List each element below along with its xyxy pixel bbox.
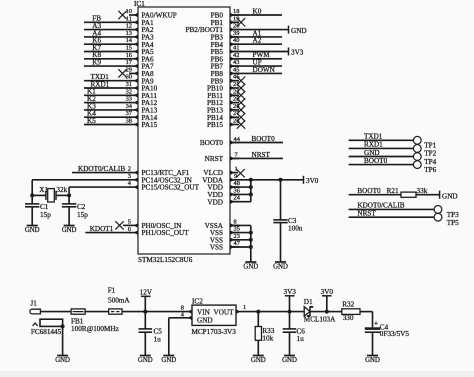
svg-text:3V3: 3V3	[284, 288, 297, 296]
svg-text:R21: R21	[387, 187, 399, 195]
power symbol 3V0 (VDDA)	[304, 176, 319, 185]
svg-text:PB15: PB15	[207, 121, 223, 129]
junction VDDA / C3 tap	[279, 178, 283, 182]
wire 3V0 to R32	[327, 311, 342, 313]
wire net K6 to pin 14	[84, 37, 130, 45]
pin 24 VDD	[230, 195, 251, 204]
svg-text:R32: R32	[342, 301, 354, 309]
svg-text:VIN: VIN	[197, 309, 211, 317]
pin 4 PC15/OSC32_OUT	[128, 180, 138, 189]
svg-text:FC681445: FC681445	[31, 328, 62, 336]
svg-text:3V0: 3V0	[306, 177, 319, 185]
pin 27 PB14 (right)	[230, 110, 240, 119]
wire net A3 to pin 12	[84, 22, 130, 30]
svg-text:VSS: VSS	[210, 244, 223, 252]
wire net TXD1 to pin 30	[84, 73, 130, 81]
no-connect pin 25	[237, 98, 245, 106]
svg-text:GND: GND	[273, 264, 288, 271]
svg-text:15p: 15p	[40, 211, 51, 219]
pin 36 VDD	[230, 187, 251, 196]
svg-text:BOOT0: BOOT0	[364, 157, 388, 165]
svg-text:KDOT1: KDOT1	[90, 225, 114, 233]
pin 35 VSS	[230, 226, 251, 235]
connector J1 FC681445 barrel jack	[30, 300, 63, 337]
wire net RXD1 to test point TP2	[349, 141, 414, 149]
svg-text:TP4: TP4	[424, 158, 436, 166]
ground under C4	[365, 356, 380, 365]
svg-text:33: 33	[126, 96, 132, 103]
pin 20 PB2/BOOT1 (right)	[230, 23, 239, 32]
svg-text:+: +	[374, 319, 378, 327]
ground under VSS bus	[243, 262, 258, 271]
svg-text:TP2: TP2	[424, 150, 436, 158]
wire net BOOT0 to test point TP6	[349, 157, 414, 165]
wire net K7 to pin 15	[84, 44, 130, 52]
pin 8 IC2 VIN	[181, 304, 192, 314]
svg-text:48: 48	[234, 180, 240, 187]
wire net K5 to pin 38	[84, 117, 130, 125]
pin 16 PA6 (left)	[126, 52, 138, 61]
ground under C1	[25, 226, 40, 235]
svg-text:C6: C6	[297, 327, 306, 335]
capacitor C6 1u	[283, 312, 306, 356]
pin 43 PB7 (right)	[230, 59, 239, 68]
pin 26 PB13 (right)	[230, 103, 239, 112]
pin 17 PA7 (left)	[126, 59, 138, 68]
pin 6 PH1/OSC_OUT	[128, 226, 138, 235]
pin 34 PA13 (left)	[126, 103, 138, 112]
junction R33 tap	[256, 310, 260, 314]
ground under C2	[62, 226, 77, 235]
svg-text:30: 30	[126, 74, 132, 81]
svg-text:40: 40	[233, 37, 239, 44]
svg-text:500mA: 500mA	[108, 297, 130, 305]
pin 11 PA1 (left)	[126, 15, 138, 24]
pin 47 VSS	[230, 240, 251, 249]
svg-text:35: 35	[234, 226, 240, 233]
svg-text:STM32L152C8U6: STM32L152C8U6	[138, 256, 193, 264]
no-connect pin 28	[237, 120, 245, 128]
wire net A4 to pin 13	[84, 29, 130, 37]
svg-text:1: 1	[235, 165, 238, 172]
pin 15 PA5 (left)	[126, 45, 138, 54]
svg-text:TP5: TP5	[447, 219, 459, 227]
svg-text:PA15: PA15	[142, 121, 158, 129]
pin 30 PA9 (left)	[126, 74, 138, 83]
junction crystal left node	[30, 193, 34, 197]
svg-text:TP3: TP3	[447, 211, 459, 219]
wire net DOWN from pin 45	[230, 66, 282, 74]
ferrite bead FB1 100R@100MHz	[71, 309, 119, 333]
svg-text:41: 41	[233, 45, 239, 52]
wire F1 to IC2 VIN	[122, 311, 192, 313]
wire J1 to FB1	[40, 311, 71, 313]
svg-text:F1: F1	[108, 287, 116, 295]
wire net A2 from pin 40	[230, 37, 282, 45]
pin 42 PB6 (right)	[230, 52, 239, 61]
ground under J1	[55, 356, 70, 365]
wire R32 to C4	[360, 312, 373, 328]
svg-text:A2: A2	[253, 37, 262, 45]
ground under C3	[273, 262, 288, 271]
wire VDD bus vertical	[250, 180, 252, 202]
svg-text:39: 39	[233, 30, 239, 37]
svg-text:1u: 1u	[154, 335, 162, 343]
svg-text:VDD: VDD	[207, 198, 223, 206]
pin 4 IC2 GND wire to ground	[169, 311, 192, 355]
svg-text:J1: J1	[30, 300, 37, 308]
pin 28 PB15 (right)	[230, 118, 239, 127]
no-connect pin 46	[237, 77, 245, 85]
svg-text:26: 26	[233, 103, 239, 110]
svg-text:MCP1703-3V3: MCP1703-3V3	[192, 328, 237, 336]
svg-text:12: 12	[126, 23, 132, 30]
wire net KDOT0/CALIB to pin 2	[72, 165, 130, 173]
svg-text:17: 17	[126, 59, 133, 66]
wire net FB to pin 11	[84, 15, 130, 23]
svg-text:19: 19	[233, 15, 239, 22]
svg-text:GND: GND	[291, 27, 307, 35]
svg-text:330: 330	[343, 314, 354, 322]
svg-text:TP1: TP1	[424, 142, 436, 150]
svg-text:PC15/OSC32_OUT: PC15/OSC32_OUT	[142, 184, 200, 192]
junction C6 / 3V3 tap	[288, 310, 292, 314]
svg-text:KDOT0/CALIB: KDOT0/CALIB	[357, 202, 404, 210]
svg-text:GND: GND	[243, 264, 258, 271]
svg-text:GND: GND	[251, 357, 266, 364]
wire net K3 to pin 34	[84, 102, 130, 110]
svg-text:NRST: NRST	[357, 210, 376, 218]
svg-text:BOOT0: BOOT0	[252, 135, 276, 143]
pin 9 VDDA	[230, 173, 239, 182]
no-connect pin 10	[118, 11, 126, 19]
fuse F1 500mA	[108, 287, 131, 315]
svg-text:D1: D1	[304, 298, 313, 306]
no-connect pin 27	[237, 113, 245, 121]
svg-text:15p: 15p	[77, 211, 88, 219]
svg-text:32k: 32k	[56, 186, 67, 194]
wire VSS bus vertical to ground	[250, 225, 252, 262]
pin 44 BOOT0	[230, 136, 241, 145]
svg-text:13: 13	[126, 30, 132, 37]
svg-text:PH1/OSC_OUT: PH1/OSC_OUT	[142, 229, 190, 237]
power symbol 3V3	[289, 48, 304, 57]
pin 32 PA11 (left)	[126, 88, 138, 97]
svg-text:100R@100MHz: 100R@100MHz	[71, 325, 119, 333]
wire net K2 to pin 33	[84, 95, 130, 103]
svg-text:22: 22	[233, 88, 239, 95]
svg-text:37: 37	[126, 110, 133, 117]
wire net KDOT0/CALIB to test point TP3	[349, 202, 435, 210]
svg-text:C3: C3	[288, 217, 297, 225]
pin 33 PA12 (left)	[126, 96, 138, 105]
pin 1 IC2 VOUT wire	[236, 304, 305, 314]
wire net GND to test point TP4	[349, 149, 414, 157]
svg-text:X1: X1	[39, 186, 48, 194]
svg-text:16: 16	[126, 52, 132, 59]
junction 12V node	[143, 310, 147, 314]
junction VDD bus	[249, 178, 253, 197]
junction crystal right node	[67, 193, 71, 197]
svg-text:47: 47	[234, 240, 241, 247]
svg-text:TP6: TP6	[424, 166, 436, 174]
no-connect pin 19	[237, 18, 245, 26]
test point TP4	[413, 153, 436, 166]
svg-text:GND: GND	[55, 357, 70, 364]
pin 3 PC14/OSC32_IN	[128, 173, 138, 182]
svg-text:38: 38	[126, 118, 132, 125]
crystal X1 32k	[32, 186, 69, 202]
svg-text:5: 5	[128, 218, 131, 225]
pin 1 VLCD	[230, 165, 238, 175]
svg-text:1u: 1u	[297, 335, 305, 343]
junction VSS bus	[249, 231, 253, 249]
svg-text:8: 8	[234, 218, 237, 225]
capacitor C1 15p	[25, 195, 51, 225]
svg-text:TXD1: TXD1	[364, 133, 383, 141]
pin 25 PB12 (right)	[230, 96, 239, 105]
pin 18 PB0 (right)	[230, 8, 239, 17]
svg-text:VOUT: VOUT	[214, 309, 235, 317]
svg-text:11: 11	[126, 15, 132, 22]
pin 29 PA8 (left)	[126, 66, 138, 75]
wire net BOOT0 to R21	[349, 187, 401, 195]
pin 2 PC13/RTC_AF1	[128, 166, 138, 175]
svg-text:KDOT0/CALIB: KDOT0/CALIB	[78, 165, 125, 173]
svg-text:C5: C5	[154, 328, 163, 336]
svg-text:MCL103A: MCL103A	[304, 316, 336, 324]
no-connect pin 1	[236, 169, 244, 177]
wire net RXD1 to pin 31	[84, 80, 130, 88]
pin 14 PA4 (left)	[126, 37, 138, 46]
svg-text:GND: GND	[365, 357, 380, 364]
svg-text:43: 43	[233, 59, 239, 66]
svg-text:BOOT0: BOOT0	[200, 139, 224, 147]
svg-text:GND: GND	[364, 149, 380, 157]
wire net K0 from pin 18	[230, 7, 282, 15]
ground under C5	[138, 356, 153, 365]
svg-text:GND: GND	[62, 227, 77, 234]
test point TP3	[434, 206, 459, 220]
svg-text:20: 20	[233, 23, 239, 30]
svg-text:34: 34	[126, 103, 133, 110]
wire net K8 to pin 16	[84, 51, 130, 59]
svg-text:3V0: 3V0	[321, 288, 334, 296]
svg-text:DOWN: DOWN	[253, 66, 276, 74]
wire net BOOT0 from pin 44	[230, 135, 283, 143]
wire net PWM from pin 42	[230, 51, 282, 59]
svg-text:GND: GND	[25, 227, 40, 234]
wire R21 to GND rail	[416, 194, 440, 196]
svg-text:C1: C1	[40, 203, 49, 211]
resistor R33 10k	[255, 312, 275, 356]
svg-text:45: 45	[233, 66, 239, 73]
resistor R21 33k	[401, 187, 428, 197]
capacitor C3 100n	[273, 180, 302, 262]
pin 12 PA2 (left)	[126, 23, 138, 32]
svg-text:0F33/5V5: 0F33/5V5	[380, 330, 410, 338]
wire net NRST from pin 7	[230, 151, 283, 159]
pin 37 PA14 (left)	[126, 110, 138, 119]
pin 8 VSSA	[230, 218, 251, 227]
svg-text:RXD1: RXD1	[364, 141, 383, 149]
power symbol 3V0 (after diode)	[321, 288, 334, 312]
svg-text:32: 32	[126, 88, 132, 95]
pin 5 PH0/OSC_IN	[123, 218, 138, 227]
svg-text:42: 42	[233, 52, 239, 59]
pin 21 PB10 (right)	[230, 81, 239, 90]
power symbol GND	[289, 26, 307, 35]
svg-text:BOOT0: BOOT0	[357, 187, 381, 195]
wire net K4 to pin 37	[84, 110, 130, 118]
wire FB1 to F1	[85, 311, 109, 313]
no-connect pin 29	[118, 69, 126, 77]
svg-text:25: 25	[233, 96, 239, 103]
svg-text:K5: K5	[87, 117, 96, 125]
svg-text:18: 18	[233, 8, 239, 15]
pin 45 PB8 (right)	[230, 66, 239, 75]
svg-text:NRST: NRST	[205, 155, 224, 163]
wire pin 41 to 3V3 rail	[230, 51, 289, 53]
diode D1 MCL103A (schottky)	[304, 298, 336, 324]
test point TP6	[413, 161, 436, 174]
pin 40 PB4 (right)	[230, 37, 239, 46]
ground under IC2 pin 4	[161, 356, 176, 365]
ground under C6	[282, 356, 297, 365]
capacitor C2 15p	[62, 195, 88, 225]
pin 22 PB11 (right)	[230, 88, 239, 97]
no-connect pin 22	[237, 91, 245, 99]
svg-text:GND: GND	[138, 357, 153, 364]
pin 38 PA15 (left)	[126, 118, 138, 127]
no-connect pin 26	[237, 106, 245, 114]
wire VDDA to 3V0 rail	[230, 179, 304, 181]
wire net K9 to pin 17	[84, 59, 130, 67]
wire pin 20 to GND rail	[230, 29, 289, 31]
svg-text:K9: K9	[92, 59, 101, 67]
svg-text:28: 28	[233, 118, 239, 125]
test point TP5	[434, 213, 459, 227]
svg-text:33k: 33k	[417, 187, 428, 195]
wire net A1 from pin 39	[230, 29, 282, 37]
test point TP1	[413, 136, 436, 149]
no-connect pin 5	[115, 221, 123, 229]
resistor R32 330	[342, 301, 360, 323]
capacitor C4 0F33/5V5 (supercap)	[365, 319, 410, 355]
svg-text:12V: 12V	[140, 289, 153, 297]
wire net K1 to pin 32	[84, 88, 130, 96]
junction J1 sleeve	[61, 324, 65, 328]
svg-text:GND: GND	[161, 357, 176, 364]
svg-text:GND: GND	[282, 357, 297, 364]
power symbol 3V3 (regulator output)	[284, 288, 297, 312]
svg-text:C2: C2	[77, 203, 86, 211]
svg-text:IC1: IC1	[134, 0, 145, 8]
wire pin 3 to crystal left node	[32, 180, 130, 196]
svg-text:1: 1	[243, 304, 246, 311]
pin 7 NRST	[230, 152, 239, 161]
regulator IC2 MCP1703-3V3	[192, 297, 237, 336]
pin 48 VDD	[230, 180, 251, 189]
svg-text:10k: 10k	[262, 335, 273, 343]
svg-text:36: 36	[234, 187, 240, 194]
svg-text:2: 2	[128, 166, 131, 173]
wire net UP from pin 43	[230, 59, 282, 67]
wire net TXD1 to test point TP1	[349, 133, 414, 141]
pin 13 PA3 (left)	[126, 30, 138, 39]
wire J1 sleeve to ground	[62, 326, 64, 355]
test point TP2	[413, 145, 436, 158]
power symbol 12V	[140, 289, 153, 312]
svg-text:46: 46	[233, 74, 239, 81]
svg-text:3V3: 3V3	[291, 49, 304, 57]
svg-text:IC2: IC2	[192, 297, 203, 305]
svg-text:GND: GND	[442, 192, 458, 200]
svg-text:K0: K0	[253, 7, 262, 15]
wire pin 4 to crystal right node	[69, 187, 130, 195]
svg-text:24: 24	[234, 195, 241, 202]
no-connect pin 21	[237, 84, 245, 92]
svg-text:NRST: NRST	[252, 151, 271, 159]
svg-text:8: 8	[181, 304, 184, 311]
pin 39 PB3 (right)	[230, 30, 239, 39]
pin 23 VSS	[230, 233, 251, 242]
capacitor C5 1u	[139, 312, 163, 356]
svg-text:3: 3	[128, 173, 131, 180]
pin 41 PB5 (right)	[230, 45, 239, 54]
ground under R33	[251, 356, 266, 365]
svg-text:9: 9	[234, 173, 237, 180]
wire net NRST to test point TP5	[349, 210, 435, 218]
power symbol GND (R21)	[440, 191, 458, 201]
pin 31 PA10 (left)	[126, 81, 138, 90]
svg-text:23: 23	[234, 233, 240, 240]
pin 19 PB1 (right)	[230, 15, 239, 24]
svg-text:15: 15	[126, 45, 132, 52]
wire net KDOT1 to pin 6	[85, 225, 130, 233]
junction 3V0 tap	[325, 310, 329, 314]
svg-text:100n: 100n	[288, 225, 303, 233]
svg-text:31: 31	[126, 81, 132, 88]
pin 46 PB9 (right)	[230, 74, 239, 83]
IC IC1 STM32L152C8U6	[134, 0, 230, 264]
pin 10 PA0 (left)	[126, 8, 138, 17]
svg-text:14: 14	[126, 37, 133, 44]
svg-text:21: 21	[233, 81, 239, 88]
svg-text:GND: GND	[197, 316, 213, 324]
